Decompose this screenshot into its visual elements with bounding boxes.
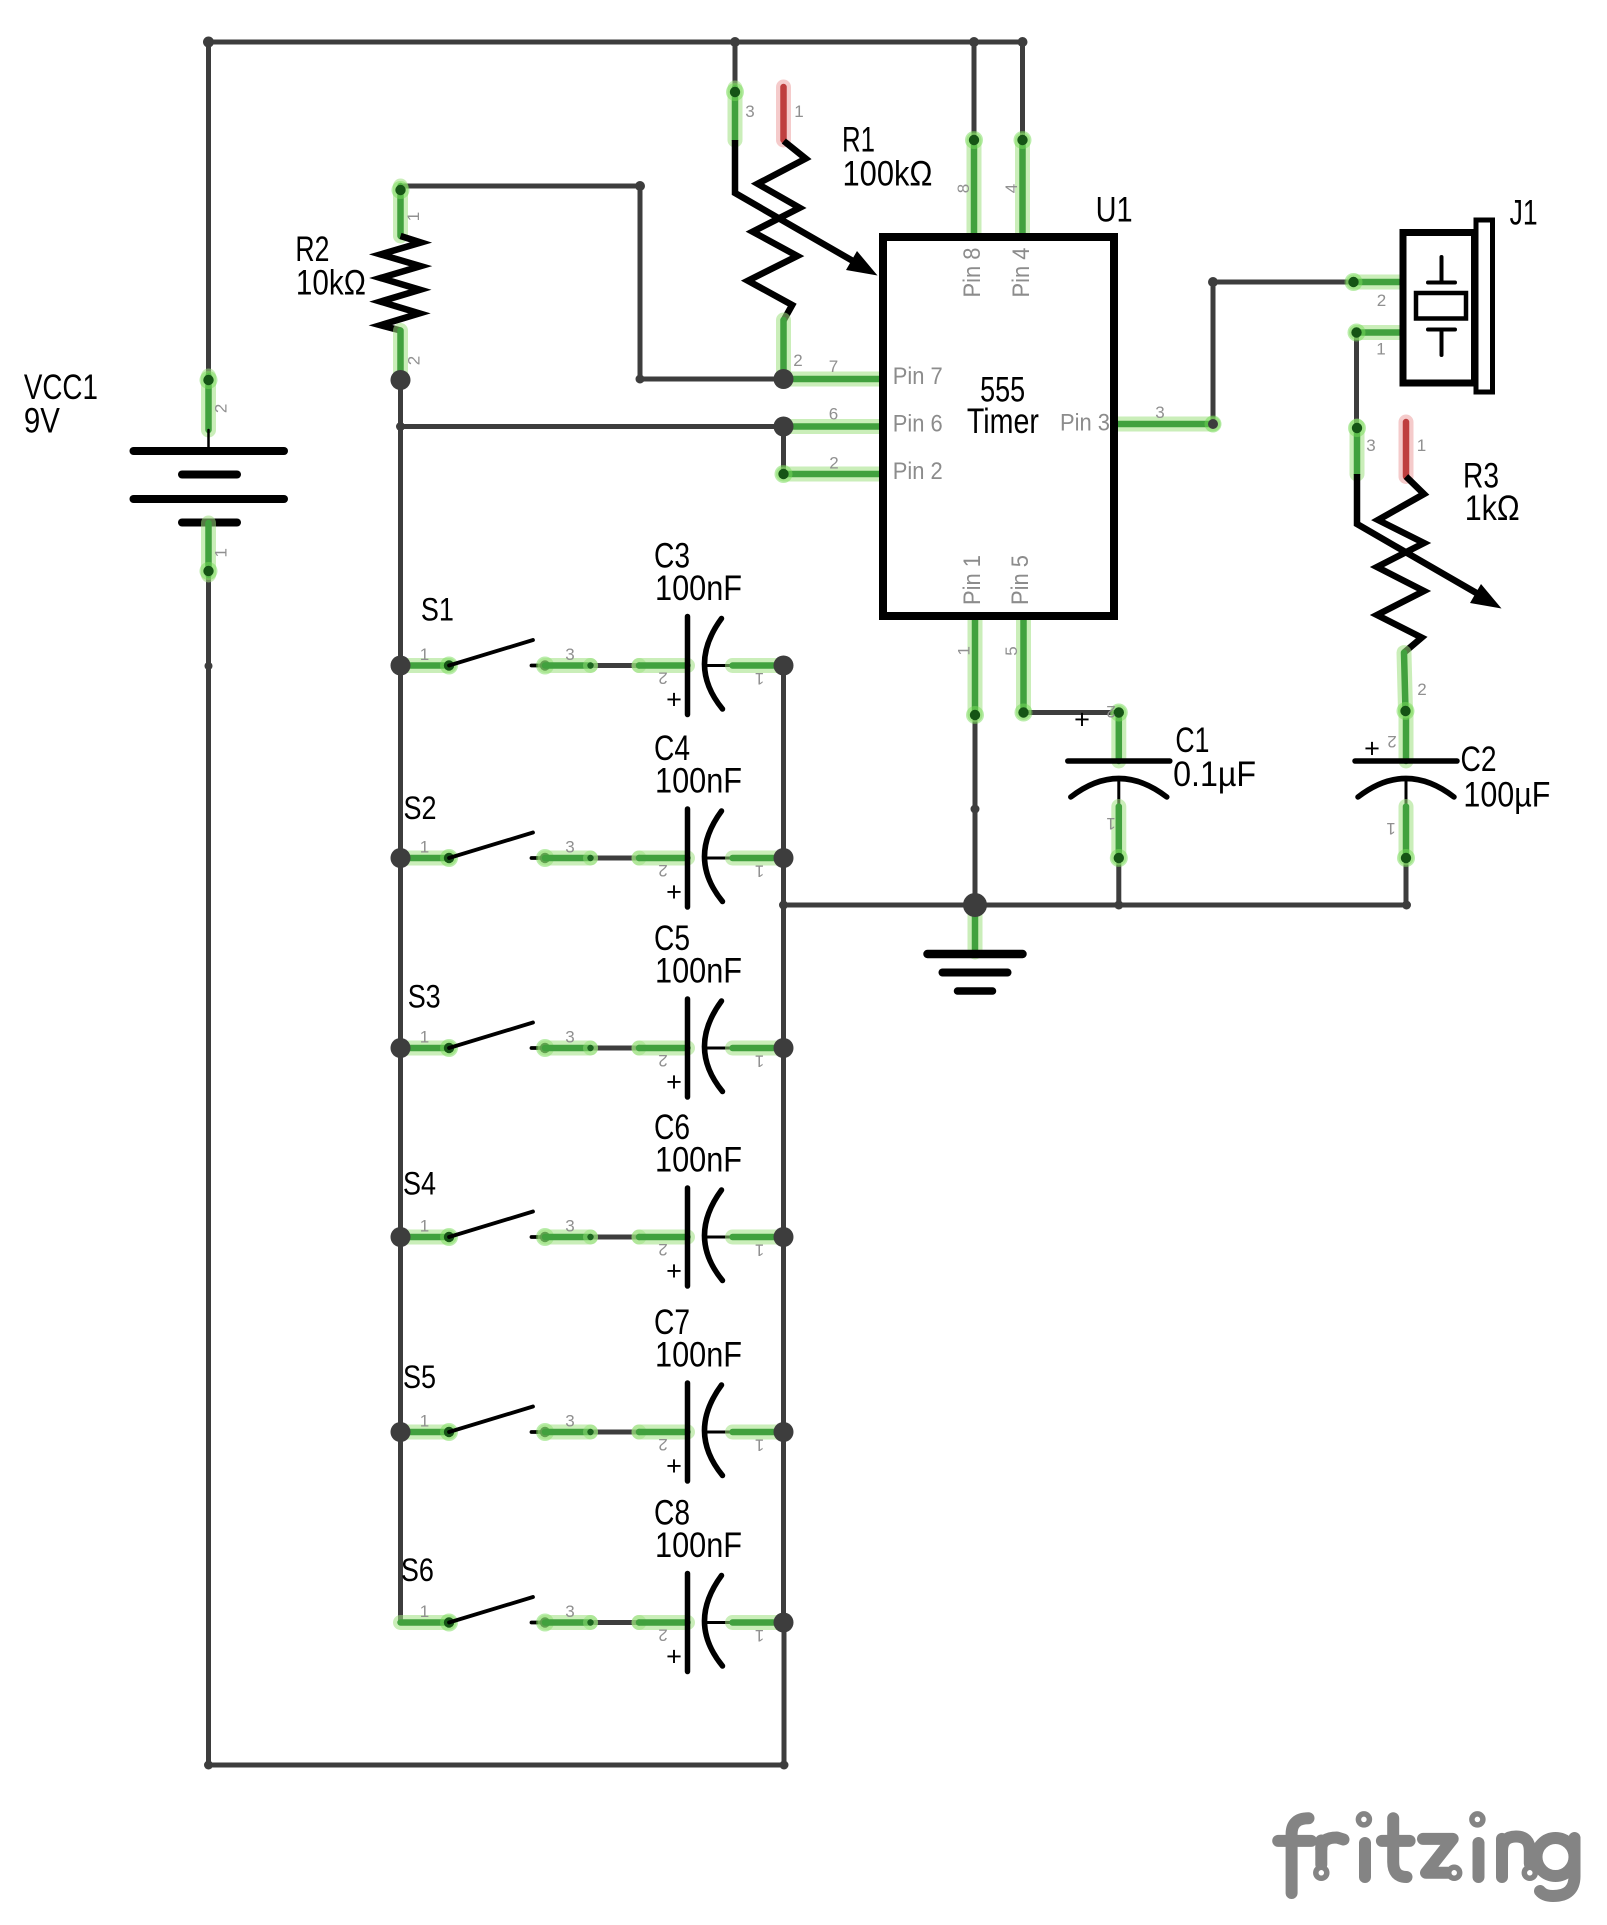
- speaker J1 body: [1403, 233, 1475, 384]
- switch S3 pin 1 stub: [401, 1041, 450, 1056]
- capacitor C1 pin 1 stub: [1111, 807, 1126, 859]
- svg-text:1: 1: [794, 102, 803, 121]
- wire switch S3 to capacitor C5: [591, 1046, 640, 1051]
- capacitor C5 pin 2 stub: [632, 1041, 647, 1056]
- svg-text:S4: S4: [403, 1166, 436, 1202]
- switch S1 contact: [532, 664, 546, 668]
- wire switch S6 to capacitor C8: [591, 1620, 640, 1625]
- switch S6 lever: [449, 1597, 533, 1623]
- svg-text:R1: R1: [842, 120, 875, 159]
- switch S4 lever: [449, 1212, 533, 1238]
- wire R1 pin3 to top rail: [733, 42, 738, 88]
- svg-text:2: 2: [1417, 680, 1426, 699]
- capacitor C1 pin 2 stub: [1111, 713, 1126, 762]
- svg-text:Pin 1: Pin 1: [959, 555, 986, 605]
- capacitor C5 body: [685, 999, 691, 1097]
- node C7 junction: [774, 1422, 794, 1442]
- svg-text:1: 1: [420, 645, 429, 664]
- svg-text:1: 1: [420, 1217, 429, 1236]
- switch S3 contact: [532, 1046, 546, 1050]
- svg-text:100nF: 100nF: [655, 1141, 742, 1180]
- switch S2 pin 3 stub: [545, 851, 591, 866]
- wire battery positive drop: [206, 42, 211, 378]
- switch S2 contact: [532, 856, 546, 860]
- resistor R2 pin 2 stub: [393, 331, 408, 379]
- switch S1 lever: [449, 640, 533, 666]
- svg-text:3: 3: [565, 1602, 574, 1621]
- wire R2 bottom to switch column: [398, 380, 403, 1623]
- capacitor C6 body: [685, 1188, 691, 1286]
- svg-text:+: +: [666, 877, 682, 907]
- op-amp U1 555 timer body: [883, 237, 1114, 616]
- wire ground bus horizontal: [784, 903, 1407, 908]
- svg-text:2: 2: [1377, 291, 1386, 310]
- svg-text:100nF: 100nF: [655, 569, 742, 608]
- potentiometer R1 pin 2 stub: [776, 320, 791, 376]
- capacitor C3 pin 1 stub: [733, 658, 780, 673]
- svg-text:100µF: 100µF: [1463, 776, 1550, 815]
- svg-text:2: 2: [658, 861, 667, 880]
- node R2 pin2 junction: [391, 370, 411, 390]
- svg-text:2: 2: [405, 356, 424, 365]
- svg-text:4: 4: [1002, 184, 1021, 193]
- svg-text:100nF: 100nF: [655, 952, 742, 991]
- wire switch S2 to capacitor C4: [591, 856, 640, 861]
- 555 pin 3 stub: [1114, 417, 1213, 432]
- potentiometer R3 body: [1377, 477, 1424, 653]
- svg-text:1: 1: [755, 669, 764, 688]
- svg-text:Timer: Timer: [967, 402, 1039, 441]
- svg-text:5: 5: [1002, 646, 1021, 655]
- svg-text:9V: 9V: [24, 402, 61, 441]
- svg-text:2: 2: [793, 351, 802, 370]
- node pin6 junction: [774, 417, 794, 437]
- node C6 junction: [774, 1227, 794, 1247]
- wire R2 top to corner: [401, 184, 641, 189]
- svg-text:3: 3: [745, 102, 754, 121]
- svg-text:3: 3: [1155, 403, 1164, 422]
- capacitor C2 body: [1355, 758, 1457, 764]
- capacitor C7 body: [685, 1383, 691, 1481]
- switch S4 contact: [532, 1235, 546, 1239]
- 555 pin 8 stub: [967, 140, 982, 237]
- resistor R2 body: [381, 236, 422, 331]
- capacitor C4 pin 1 stub: [733, 851, 780, 866]
- svg-text:3: 3: [565, 645, 574, 664]
- svg-text:100nF: 100nF: [655, 762, 742, 801]
- potentiometer R1 pin 3 stub: [728, 88, 743, 140]
- node S5 junction: [391, 1422, 411, 1442]
- svg-text:1: 1: [420, 1412, 429, 1431]
- speaker J1 pin 1 stub: [1357, 325, 1404, 340]
- svg-text:100nF: 100nF: [655, 1336, 742, 1375]
- svg-text:+: +: [1074, 705, 1090, 735]
- svg-text:1: 1: [755, 1436, 764, 1455]
- switch S5 pin 1 stub: [401, 1425, 450, 1440]
- svg-text:1: 1: [1106, 814, 1115, 833]
- switch S6 pin 3 stub: [545, 1615, 591, 1630]
- switch S6 pin 1 stub: [401, 1615, 450, 1630]
- switch S6 contact: [532, 1621, 546, 1625]
- ground: [928, 950, 1023, 959]
- potentiometer R3 pin 2 stub: [1404, 653, 1406, 711]
- wire 555 pin3 riser: [1211, 282, 1216, 424]
- 555 pin 5 stub: [1016, 616, 1031, 713]
- 555 pin 7 stub: [784, 372, 884, 387]
- node S4 junction: [391, 1227, 411, 1247]
- wire C2 to ground bus: [1404, 858, 1409, 905]
- wire switch S5 to capacitor C7: [591, 1430, 640, 1435]
- svg-text:3: 3: [565, 1412, 574, 1431]
- wire bottom rail: [209, 1763, 785, 1768]
- svg-text:2: 2: [658, 669, 667, 688]
- switch S3 lever: [449, 1023, 533, 1049]
- svg-text:10kΩ: 10kΩ: [296, 264, 366, 303]
- svg-text:S6: S6: [401, 1552, 434, 1588]
- fritzing logo: [1278, 1818, 1574, 1896]
- svg-text:S3: S3: [408, 979, 441, 1015]
- node C4 junction: [774, 848, 794, 868]
- wire top rail to 555 pin8: [972, 42, 977, 140]
- svg-text:+: +: [666, 1067, 682, 1097]
- svg-text:Pin 3: Pin 3: [1060, 410, 1110, 437]
- wire C1 to ground bus: [1116, 858, 1121, 905]
- svg-text:Pin 8: Pin 8: [959, 248, 986, 298]
- switch S4 pin 1 stub: [401, 1230, 450, 1245]
- battery VCC1: [207, 430, 210, 451]
- svg-text:1: 1: [212, 548, 231, 557]
- 555 pin 6 stub: [784, 419, 884, 434]
- ground pin stub: [968, 907, 983, 952]
- svg-text:+: +: [1364, 734, 1380, 764]
- svg-text:C2: C2: [1461, 740, 1497, 779]
- wire corner to pin7 node: [640, 377, 784, 382]
- svg-text:+: +: [666, 1256, 682, 1286]
- svg-text:Pin 5: Pin 5: [1007, 555, 1034, 605]
- potentiometer R3 pin 1 stub: [1399, 422, 1414, 477]
- svg-text:2: 2: [658, 1435, 667, 1454]
- svg-text:2: 2: [829, 454, 838, 473]
- wire top rail to 555 pin4: [1020, 42, 1025, 140]
- svg-text:2: 2: [1387, 732, 1396, 751]
- svg-text:1: 1: [420, 1028, 429, 1047]
- capacitor C2 pin 1 stub: [1399, 807, 1414, 859]
- battery VCC1 pin 1 stub: [201, 523, 216, 575]
- battery VCC1 pin 2 stub: [201, 376, 216, 430]
- svg-text:S5: S5: [403, 1359, 436, 1395]
- 555 pin 4 stub: [1015, 140, 1030, 237]
- switch S4 pin 3 stub: [545, 1230, 591, 1245]
- wire corner down: [638, 186, 643, 379]
- 555 pin 1 stub: [968, 616, 983, 715]
- capacitor C6 pin 2 stub: [632, 1230, 647, 1245]
- svg-text:U1: U1: [1096, 191, 1133, 230]
- wire VCC top rail: [209, 40, 1023, 45]
- wire battery negative to bottom rail: [206, 573, 211, 1765]
- svg-text:Pin 4: Pin 4: [1008, 248, 1035, 298]
- node C8 junction: [774, 1613, 794, 1633]
- switch S2 lever: [449, 833, 533, 859]
- svg-text:1: 1: [954, 646, 973, 655]
- capacitor C4 body: [685, 809, 691, 907]
- wire pin3 to speaker: [1213, 280, 1354, 285]
- svg-text:3: 3: [565, 1217, 574, 1236]
- svg-text:1: 1: [1386, 819, 1395, 838]
- svg-text:100nF: 100nF: [655, 1526, 742, 1565]
- node S1 junction: [391, 656, 411, 676]
- svg-text:1: 1: [1417, 436, 1426, 455]
- svg-text:1: 1: [1376, 340, 1385, 359]
- svg-text:3: 3: [565, 838, 574, 857]
- speaker J1 pin 2 stub: [1354, 275, 1404, 290]
- node S3 junction: [391, 1038, 411, 1058]
- switch S5 lever: [449, 1407, 533, 1433]
- svg-text:0.1µF: 0.1µF: [1173, 755, 1256, 794]
- node pin7 junction: [774, 369, 794, 389]
- capacitor C8 pin 2 stub: [632, 1615, 647, 1630]
- capacitor C8 pin 1 stub: [733, 1615, 780, 1630]
- svg-text:1: 1: [755, 1626, 764, 1645]
- svg-text:2: 2: [658, 1051, 667, 1070]
- capacitor C1 body: [1068, 758, 1170, 764]
- svg-text:6: 6: [829, 405, 838, 424]
- svg-text:1kΩ: 1kΩ: [1465, 489, 1520, 528]
- wire switch S1 to capacitor C3: [591, 663, 640, 668]
- svg-text:1: 1: [755, 862, 764, 881]
- svg-text:1: 1: [420, 838, 429, 857]
- wire speaker pin1 to R3: [1354, 333, 1359, 427]
- capacitor C3 pin 2 stub: [632, 658, 647, 673]
- potentiometer R1 wiper arrow: [735, 140, 855, 262]
- switch S2 pin 1 stub: [401, 851, 450, 866]
- wire capacitor ground bus: [781, 666, 786, 1623]
- switch S3 pin 3 stub: [545, 1041, 591, 1056]
- node C5 junction: [774, 1038, 794, 1058]
- capacitor C7 pin 2 stub: [632, 1425, 647, 1440]
- svg-text:1: 1: [755, 1241, 764, 1260]
- capacitor C4 pin 2 stub: [632, 851, 647, 866]
- svg-text:2: 2: [212, 404, 231, 413]
- resistor R2 pin 1 stub: [393, 186, 408, 236]
- svg-text:3: 3: [1366, 436, 1375, 455]
- svg-text:Pin 7: Pin 7: [893, 363, 943, 390]
- switch S5 pin 3 stub: [545, 1425, 591, 1440]
- svg-text:+: +: [666, 1451, 682, 1481]
- svg-text:S1: S1: [421, 591, 454, 627]
- svg-text:100kΩ: 100kΩ: [843, 155, 933, 194]
- wire switch S4 to capacitor C6: [591, 1235, 640, 1240]
- 555 pin 2 stub: [784, 467, 884, 482]
- wire ground bus riser: [782, 1623, 787, 1766]
- switch S1 pin 1 stub: [401, 658, 450, 673]
- svg-text:1: 1: [404, 212, 423, 221]
- svg-text:+: +: [666, 685, 682, 715]
- wire 555 pin5 to C1: [1024, 710, 1119, 715]
- svg-text:8: 8: [954, 184, 973, 193]
- svg-text:J1: J1: [1510, 193, 1538, 232]
- capacitor C8 body: [685, 1574, 691, 1672]
- potentiometer R1 body: [748, 141, 806, 320]
- svg-text:7: 7: [829, 357, 838, 376]
- node C3 junction: [774, 656, 794, 676]
- capacitor C6 pin 1 stub: [733, 1230, 780, 1245]
- svg-text:1: 1: [420, 1602, 429, 1621]
- svg-text:1: 1: [755, 1052, 764, 1071]
- svg-text:3: 3: [565, 1028, 574, 1047]
- svg-text:2: 2: [1106, 702, 1115, 721]
- potentiometer R3 wiper arrow: [1357, 474, 1479, 595]
- wire 555 pin1 to ground: [973, 715, 978, 905]
- capacitor C2 pin 2 stub: [1399, 711, 1414, 761]
- node S2 junction: [391, 848, 411, 868]
- svg-text:Pin 6: Pin 6: [893, 411, 943, 438]
- switch S1 pin 3 stub: [545, 658, 591, 673]
- svg-text:S2: S2: [404, 790, 437, 826]
- wire R2 node to 555 pin6: [401, 424, 784, 429]
- potentiometer R3 pin 3 stub: [1350, 426, 1365, 474]
- capacitor C5 pin 1 stub: [733, 1041, 780, 1056]
- wire pin6 node to pin2 node: [781, 427, 786, 475]
- capacitor C3 body: [685, 617, 691, 715]
- svg-text:Pin 2: Pin 2: [893, 458, 943, 485]
- capacitor C7 pin 1 stub: [733, 1425, 780, 1440]
- node ground junction: [963, 893, 987, 917]
- svg-text:2: 2: [658, 1240, 667, 1259]
- switch S5 contact: [532, 1430, 546, 1434]
- svg-text:2: 2: [658, 1626, 667, 1645]
- potentiometer R1 pin 1 stub: [776, 87, 791, 140]
- svg-text:+: +: [666, 1642, 682, 1672]
